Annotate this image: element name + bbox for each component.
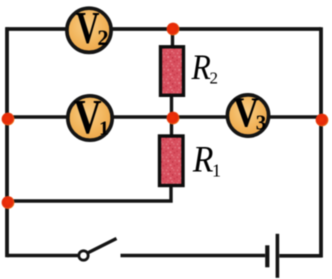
svg-text:2: 2	[97, 25, 108, 50]
svg-text:2: 2	[210, 69, 219, 88]
resistor R2 body	[161, 47, 184, 96]
svg-text:1: 1	[99, 118, 109, 140]
svg-text:3: 3	[256, 111, 266, 135]
node dot: right middle junction	[316, 114, 329, 127]
voltmeter V3 body	[227, 95, 268, 136]
wire: R1 top lead	[170, 117, 173, 138]
svg-text:1: 1	[212, 160, 221, 180]
node dot: left lower junction	[2, 196, 15, 209]
switch S pivot	[79, 251, 88, 260]
node dot: left middle junction	[2, 113, 15, 126]
wire: R2 top lead	[171, 29, 174, 50]
svg-text:V: V	[74, 90, 102, 144]
node dot: top center junction	[167, 23, 180, 36]
wire: bottom segment battery to right corner	[279, 254, 322, 258]
switch S blade	[89, 239, 117, 253]
wire: top horizontal	[6, 27, 322, 31]
voltmeter V2 body	[67, 8, 111, 52]
svg-text:R: R	[191, 48, 212, 87]
wire: R2 bottom lead	[170, 93, 173, 117]
voltmeter V1 body	[68, 96, 112, 140]
resistor R1 body	[160, 136, 184, 186]
battery negative plate (short)	[265, 245, 269, 267]
wire: bottom segment switch to battery	[121, 254, 266, 258]
wire: right vertical	[319, 27, 323, 257]
wire: middle horizontal	[6, 115, 322, 119]
wire: bottom left segment to switch	[7, 254, 78, 258]
wire: lower return branch (R1 bottom to left wire)	[7, 183, 171, 201]
battery positive plate (long)	[276, 234, 280, 278]
svg-text:R: R	[192, 139, 213, 180]
svg-text:V: V	[76, 3, 100, 53]
wire: left vertical	[5, 27, 9, 257]
node dot: center junction	[167, 112, 180, 125]
